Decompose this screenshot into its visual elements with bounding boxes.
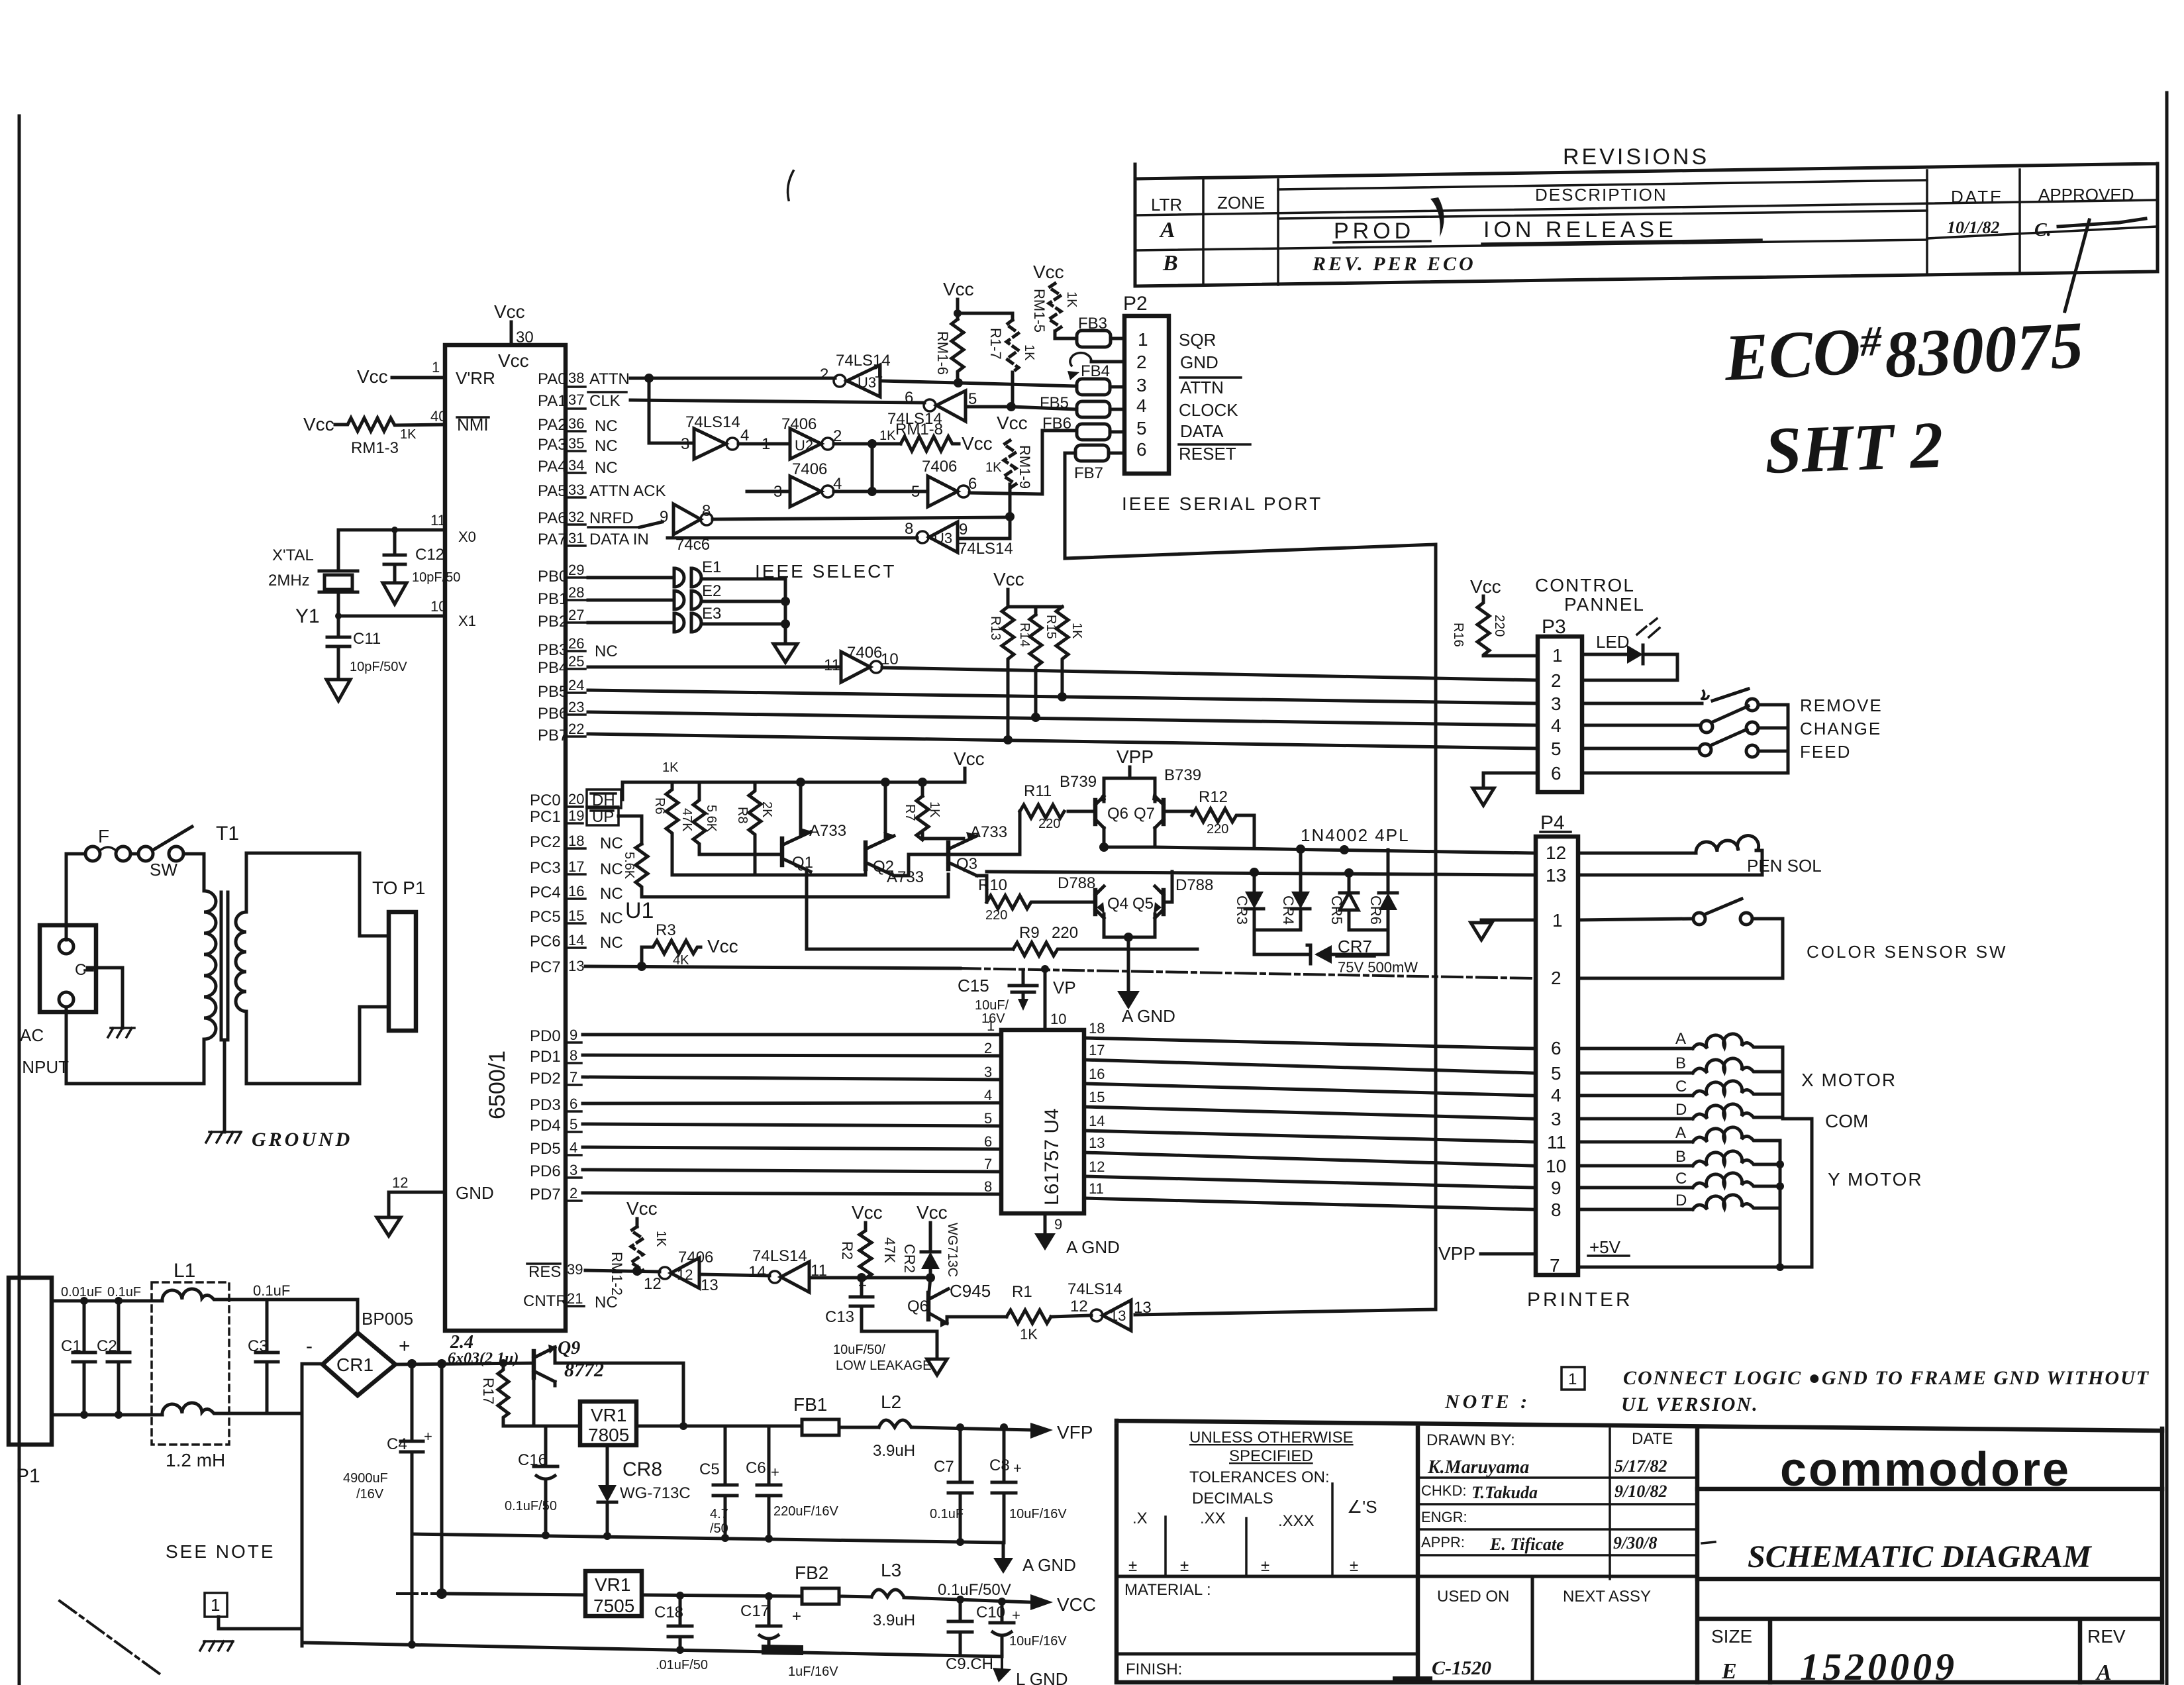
svg-text:3: 3 xyxy=(984,1064,992,1080)
svg-text:C.: C. xyxy=(2034,220,2052,240)
svg-text:11: 11 xyxy=(824,656,840,674)
svg-text:NC: NC xyxy=(595,437,618,455)
svg-text:PC7: PC7 xyxy=(530,958,561,976)
svg-text:P2: P2 xyxy=(1123,293,1148,315)
svg-text:1: 1 xyxy=(1568,1370,1577,1388)
svg-text:DECIMALS: DECIMALS xyxy=(1192,1490,1273,1507)
svg-text:PANNEL: PANNEL xyxy=(1564,594,1645,615)
svg-text:CR2: CR2 xyxy=(901,1244,918,1273)
svg-text:PA3: PA3 xyxy=(538,436,567,454)
svg-text:47K: 47K xyxy=(881,1237,898,1263)
svg-text:commodore: commodore xyxy=(1780,1443,2071,1496)
svg-text:220: 220 xyxy=(1207,822,1228,837)
svg-text:Q4: Q4 xyxy=(1107,895,1128,913)
svg-text:Vcc: Vcc xyxy=(1470,576,1501,597)
svg-text:7505: 7505 xyxy=(593,1596,634,1616)
svg-text:R3: R3 xyxy=(656,921,676,939)
svg-text:TO P1: TO P1 xyxy=(372,878,425,898)
svg-text:27: 27 xyxy=(568,607,584,623)
approved slash mark xyxy=(2058,219,2146,311)
svg-text:2: 2 xyxy=(1551,968,1562,988)
svg-text:17: 17 xyxy=(1089,1042,1105,1058)
svg-text:36: 36 xyxy=(568,415,584,432)
svg-text:R1-7: R1-7 xyxy=(987,328,1004,360)
svg-text:PD0: PD0 xyxy=(530,1027,561,1045)
svg-text:1K: 1K xyxy=(879,429,896,443)
svg-text:C5: C5 xyxy=(699,1460,720,1478)
svg-text:1520009: 1520009 xyxy=(1800,1645,1958,1685)
svg-text:DATE: DATE xyxy=(1632,1430,1673,1448)
svg-text:PB6: PB6 xyxy=(538,705,568,723)
svg-text:RM1-9: RM1-9 xyxy=(1017,445,1033,489)
svg-text:LOW LEAKAGE: LOW LEAKAGE xyxy=(836,1358,932,1373)
svg-text:A GND: A GND xyxy=(1066,1237,1120,1257)
wire node down to ATTN ACK chain xyxy=(871,444,874,491)
svg-text:3: 3 xyxy=(1551,1109,1562,1129)
svg-text:Q5: Q5 xyxy=(1132,895,1154,913)
svg-text:VFP: VFP xyxy=(1057,1422,1093,1443)
svg-text:13: 13 xyxy=(1110,1307,1126,1324)
svg-text:220: 220 xyxy=(1038,817,1060,831)
wire PB7 to P3 pin5 xyxy=(588,734,1538,748)
voltage regulator VR2 7505 xyxy=(585,1571,642,1616)
svg-text:PRINTER: PRINTER xyxy=(1527,1289,1633,1311)
wire ATTN gate to FB4 xyxy=(880,381,1077,386)
svg-text:T1: T1 xyxy=(216,823,239,844)
commodore logo box xyxy=(1697,1487,2162,1492)
wire P3 pin6 to ground xyxy=(1483,773,1538,788)
connector P1 xyxy=(9,1278,52,1445)
svg-text:35: 35 xyxy=(568,435,584,452)
svg-text:8: 8 xyxy=(570,1047,577,1064)
svg-text:PA2: PA2 xyxy=(538,416,567,434)
svg-text:10: 10 xyxy=(1050,1011,1066,1027)
page right border xyxy=(2165,93,2169,1685)
svg-text:74LS14: 74LS14 xyxy=(1067,1280,1122,1298)
svg-text:.X: .X xyxy=(1132,1509,1148,1527)
REVISIONS table outer frame xyxy=(1135,164,2158,286)
svg-text:14: 14 xyxy=(748,1263,766,1281)
svg-text:U3: U3 xyxy=(934,530,952,546)
svg-text:L61757 U4: L61757 U4 xyxy=(1041,1108,1063,1205)
svg-text:SW: SW xyxy=(150,860,177,880)
wire PD7 to U4 pin8 xyxy=(583,1193,1001,1194)
transformer T1 core xyxy=(221,892,228,1132)
svg-text:7406: 7406 xyxy=(678,1249,713,1266)
svg-text:5: 5 xyxy=(1136,418,1147,438)
svg-text:10uF/50/: 10uF/50/ xyxy=(833,1343,885,1357)
REVISIONS column verticals xyxy=(1203,170,2020,285)
wire bridge bottom to gnd rail xyxy=(301,1364,304,1646)
svg-text:Vcc: Vcc xyxy=(498,350,529,371)
svg-text:±: ± xyxy=(1350,1557,1358,1575)
wire 7406 out to RM1-8 node xyxy=(834,442,901,446)
svg-text:X1: X1 xyxy=(458,613,476,629)
svg-text:T.Takuda: T.Takuda xyxy=(1471,1483,1538,1502)
wire Q3 emitter to R10 xyxy=(977,876,987,902)
svg-text:4: 4 xyxy=(984,1087,992,1103)
svg-text:CR1: CR1 xyxy=(336,1354,373,1375)
svg-text:R9: R9 xyxy=(1019,924,1040,942)
transformer T1 secondary xyxy=(236,912,246,1011)
dash after appr xyxy=(1702,1542,1715,1543)
svg-text:A: A xyxy=(1675,1030,1686,1048)
wire PB5 to P3 pin3 xyxy=(588,690,1538,703)
svg-text:CNTR: CNTR xyxy=(523,1292,568,1310)
svg-text:NC: NC xyxy=(600,885,623,903)
wire PD5 to U4 pin6 xyxy=(583,1147,1001,1149)
svg-text:PB3: PB3 xyxy=(538,641,568,659)
svg-text:12: 12 xyxy=(677,1266,693,1283)
svg-text:220: 220 xyxy=(985,908,1007,923)
svg-text:8: 8 xyxy=(905,520,913,538)
svg-text:6: 6 xyxy=(905,389,913,407)
U1 6500/1 CPU box xyxy=(445,345,566,1331)
tolerance tick verticals xyxy=(1166,1484,1332,1574)
svg-text:PD3: PD3 xyxy=(530,1096,561,1114)
capacitor C12 xyxy=(384,530,405,583)
size/number/rev row xyxy=(1697,1429,2162,1682)
svg-text:C17: C17 xyxy=(740,1602,769,1620)
ground arrow below C11 xyxy=(326,680,350,701)
svg-text:CONNECT LOGIC ●GND TO FRAME GN: CONNECT LOGIC ●GND TO FRAME GND WITHOUT xyxy=(1623,1367,2150,1389)
svg-text:220: 220 xyxy=(1492,615,1507,637)
svg-text:C6: C6 xyxy=(746,1459,766,1477)
svg-text:PA1: PA1 xyxy=(538,392,567,410)
svg-text:1K: 1K xyxy=(1064,291,1079,308)
switch FEED xyxy=(1699,744,1711,756)
node PA0 junction xyxy=(644,374,654,383)
svg-text:Vcc: Vcc xyxy=(1033,262,1064,282)
svg-text:2: 2 xyxy=(1551,670,1562,691)
ground arrow for pin 12 xyxy=(377,1217,401,1236)
svg-text:24: 24 xyxy=(568,677,584,693)
svg-text:1: 1 xyxy=(1552,910,1563,931)
svg-text:IEEE SERIAL PORT: IEEE SERIAL PORT xyxy=(1122,493,1322,514)
wire P4 pin1 to ground xyxy=(1481,920,1536,923)
resistor R17 xyxy=(498,1363,509,1426)
svg-text:L GND: L GND xyxy=(1016,1669,1068,1685)
svg-text:4: 4 xyxy=(1551,1085,1562,1105)
svg-text:PA4: PA4 xyxy=(538,458,567,476)
svg-text:FB6: FB6 xyxy=(1042,415,1071,433)
wire secondary to TO P1 plug bottom xyxy=(246,1007,389,1084)
svg-text:PB0: PB0 xyxy=(538,568,568,586)
svg-text:A GND: A GND xyxy=(1022,1555,1076,1575)
svg-text:-: - xyxy=(306,1335,313,1357)
svg-text:1K: 1K xyxy=(662,760,679,775)
wire Q1 collector R9 line xyxy=(807,948,1013,951)
svg-text:11: 11 xyxy=(1089,1180,1104,1197)
svg-text:DESCRIPTION: DESCRIPTION xyxy=(1535,185,1667,205)
svg-text:1: 1 xyxy=(211,1595,220,1615)
stray pen mark top center xyxy=(788,171,793,200)
wire mid bar to P4 pin12 PEN SOL line xyxy=(1155,847,1532,853)
svg-text:NC: NC xyxy=(600,909,623,927)
wire PB4 to 7406 xyxy=(588,666,841,669)
wire to 74LS14 xyxy=(699,1274,769,1276)
svg-text:R14: R14 xyxy=(1017,623,1032,647)
svg-text:ATTN: ATTN xyxy=(589,370,630,388)
svg-text:PEN SOL: PEN SOL xyxy=(1747,856,1822,876)
ground arrow IEEE select xyxy=(773,644,797,662)
VCC output arrow xyxy=(1030,1594,1053,1610)
svg-text:DATA IN: DATA IN xyxy=(589,531,649,548)
wire VR1 input line xyxy=(503,1378,580,1426)
wire PC7 dash-dot to P4 pin2 xyxy=(960,968,1532,978)
svg-text:22: 22 xyxy=(568,721,584,737)
svg-text:C-1520: C-1520 xyxy=(1432,1657,1491,1679)
svg-text:Vcc: Vcc xyxy=(943,279,974,299)
svg-text:NEXT ASSY: NEXT ASSY xyxy=(1563,1588,1651,1606)
svg-text:LED: LED xyxy=(1596,632,1630,652)
switch CHANGE xyxy=(1701,721,1712,733)
svg-text:C: C xyxy=(1675,1078,1687,1096)
svg-text:75V 500mW: 75V 500mW xyxy=(1338,959,1418,976)
svg-text:E1: E1 xyxy=(702,558,721,576)
wire P3 pin3 to REMOVE switch xyxy=(1582,702,1702,705)
jumper E1 xyxy=(674,568,701,587)
svg-text:CLK: CLK xyxy=(589,392,620,410)
svg-text:RM1-6: RM1-6 xyxy=(934,331,951,375)
svg-text:R8: R8 xyxy=(735,807,750,824)
wire PA1 CLK line xyxy=(630,400,924,403)
svg-text:5.6K: 5.6K xyxy=(704,805,719,833)
svg-text:DATA: DATA xyxy=(1180,421,1224,441)
svg-text:Q1: Q1 xyxy=(792,854,813,872)
wire Q1 collector down xyxy=(805,870,809,949)
svg-text:9/10/82: 9/10/82 xyxy=(1614,1482,1667,1501)
resistor R14 xyxy=(1030,615,1042,717)
wire bottom line to bridge left xyxy=(302,1364,323,1413)
ferrite bead FB7 xyxy=(1075,445,1109,461)
wire P1 top line xyxy=(52,1300,152,1303)
svg-text:PA7: PA7 xyxy=(538,531,567,548)
svg-text:NOTE :: NOTE : xyxy=(1444,1391,1530,1413)
svg-text:GROUND: GROUND xyxy=(252,1129,352,1150)
U4 L61757 driver box xyxy=(1001,1030,1084,1213)
diode CR6 xyxy=(1387,850,1390,893)
diode CR4 xyxy=(1299,849,1303,892)
svg-text:B: B xyxy=(1675,1148,1686,1166)
U1 GND pin 12 xyxy=(389,1192,445,1217)
svg-text:C945: C945 xyxy=(950,1281,991,1301)
svg-text:1: 1 xyxy=(987,1017,995,1034)
heavy ink mark on rail xyxy=(762,1645,803,1655)
svg-text:PC5: PC5 xyxy=(530,908,561,926)
svg-text:B: B xyxy=(1162,251,1178,276)
svg-text:VP: VP xyxy=(1053,978,1076,997)
switch REMOVE xyxy=(1702,691,1709,699)
svg-text:9: 9 xyxy=(1551,1178,1562,1198)
wire 7406 out to FB6 corner xyxy=(969,431,1077,494)
svg-text:PB4: PB4 xyxy=(538,659,568,677)
wire Q2 emitter to Q3 base xyxy=(894,854,948,876)
wire PD4 to U4 pin5 xyxy=(583,1124,1001,1126)
svg-text:15: 15 xyxy=(568,907,584,924)
svg-text:E: E xyxy=(1721,1659,1737,1684)
svg-text:4: 4 xyxy=(570,1139,577,1156)
svg-text:8: 8 xyxy=(984,1178,992,1195)
page left border xyxy=(18,116,21,1685)
svg-text:COM: COM xyxy=(1825,1111,1868,1131)
LED diode on P3 pin1 xyxy=(1582,653,1627,656)
svg-text:Y MOTOR: Y MOTOR xyxy=(1828,1169,1923,1190)
svg-text:+: + xyxy=(771,1464,779,1480)
wire P3 pin4 to CHANGE switch xyxy=(1582,724,1701,727)
svg-text:E. Tificate: E. Tificate xyxy=(1489,1535,1564,1554)
svg-text:PC1: PC1 xyxy=(530,808,561,826)
svg-text:4.7: 4.7 xyxy=(710,1507,728,1521)
wire PD2 to U4 pin3 xyxy=(583,1077,1001,1080)
svg-text:19: 19 xyxy=(568,807,584,824)
pen solenoid coil xyxy=(1578,852,1696,855)
ink blot on description xyxy=(1430,197,1444,237)
A GND arrow on rail xyxy=(1002,1543,1005,1558)
wire PD0 to U4 pin1 xyxy=(583,1033,1001,1037)
svg-text:RM1-3: RM1-3 xyxy=(351,439,399,457)
svg-text:NRFD: NRFD xyxy=(589,509,634,527)
jumper E3 xyxy=(674,613,701,632)
svg-text:C9.CH: C9.CH xyxy=(946,1655,993,1673)
svg-text:+: + xyxy=(792,1608,801,1625)
svg-text:3: 3 xyxy=(1136,375,1147,395)
wire PB0 to E1 xyxy=(588,576,673,580)
svg-text:AC: AC xyxy=(20,1025,44,1045)
svg-text:10/1/82: 10/1/82 xyxy=(1947,218,1999,237)
svg-text:E3: E3 xyxy=(702,605,721,623)
svg-text:Q6: Q6 xyxy=(907,1298,928,1315)
svg-text:25: 25 xyxy=(568,653,584,670)
svg-text:PD4: PD4 xyxy=(530,1117,561,1135)
switch return bus to pin6 xyxy=(1582,705,1788,773)
svg-text:Vcc: Vcc xyxy=(997,413,1028,433)
U4 pin9 bottom A GND xyxy=(1044,1213,1047,1233)
small chassis ground xyxy=(108,1028,134,1037)
wire R1 to 74LS14 xyxy=(1051,1315,1091,1317)
svg-text:PB7: PB7 xyxy=(538,727,568,744)
svg-text:10pF/50V: 10pF/50V xyxy=(350,660,407,674)
svg-text:R2: R2 xyxy=(839,1241,856,1260)
svg-text:5: 5 xyxy=(570,1116,577,1133)
transformer T1 primary xyxy=(204,891,216,1084)
svg-text:PC6: PC6 xyxy=(530,933,561,950)
svg-text:APPROVED: APPROVED xyxy=(2038,185,2134,205)
svg-text:ATTN: ATTN xyxy=(1180,378,1224,397)
svg-text:SIZE: SIZE xyxy=(1711,1626,1752,1647)
svg-text:10uF/16V: 10uF/16V xyxy=(1009,1634,1067,1649)
svg-text:D788: D788 xyxy=(1058,874,1095,892)
wire C pin to small ground xyxy=(87,968,123,1028)
svg-text:CR7: CR7 xyxy=(1338,937,1372,956)
boxed 1 note ref xyxy=(205,1593,227,1617)
svg-text:APPR:: APPR: xyxy=(1421,1534,1465,1551)
wire PB2 to E3 xyxy=(588,621,673,625)
svg-text:SQR: SQR xyxy=(1179,330,1216,350)
svg-text:FINISH:: FINISH: xyxy=(1126,1660,1182,1678)
svg-text:5: 5 xyxy=(1551,1063,1562,1084)
svg-text:74LS14: 74LS14 xyxy=(752,1247,807,1265)
svg-text:PD5: PD5 xyxy=(530,1140,561,1158)
svg-text:L2: L2 xyxy=(881,1392,901,1412)
svg-text:A733: A733 xyxy=(809,822,846,840)
svg-text:14: 14 xyxy=(568,932,584,948)
svg-text:NC: NC xyxy=(595,459,618,477)
svg-text:0.1uF: 0.1uF xyxy=(930,1507,964,1521)
svg-text:FB2: FB2 xyxy=(795,1562,828,1583)
svg-text:220uF/16V: 220uF/16V xyxy=(773,1504,839,1519)
AC outlet xyxy=(40,925,96,1012)
wire bridge + output rail xyxy=(395,1363,534,1364)
svg-text:UNLESS OTHERWISE: UNLESS OTHERWISE xyxy=(1189,1429,1354,1447)
svg-text:U2: U2 xyxy=(795,437,813,454)
svg-text:2: 2 xyxy=(570,1185,577,1201)
wire E2 to gnd bus xyxy=(702,600,785,603)
svg-text:13: 13 xyxy=(1089,1135,1105,1151)
svg-text:1K: 1K xyxy=(1020,1326,1038,1343)
svg-text:21: 21 xyxy=(567,1290,583,1307)
svg-text:NC: NC xyxy=(595,417,618,435)
svg-text:V'RR: V'RR xyxy=(456,368,495,388)
wire PA0 ATTN line xyxy=(630,377,835,380)
svg-text:3: 3 xyxy=(570,1162,577,1178)
svg-text:220: 220 xyxy=(1052,924,1078,942)
FINISH row xyxy=(1118,1653,1418,1656)
svg-text:18: 18 xyxy=(568,833,584,849)
switch SW xyxy=(138,846,153,861)
wire E3 to gnd bus xyxy=(702,623,785,626)
X motor common bus xyxy=(1783,1047,1812,1267)
svg-text:ENGR:: ENGR: xyxy=(1421,1509,1467,1525)
svg-text:NC: NC xyxy=(595,1294,618,1311)
svg-text:17: 17 xyxy=(568,858,584,875)
svg-text:X0: X0 xyxy=(458,529,476,545)
svg-text:1: 1 xyxy=(1138,329,1148,350)
svg-text:L1: L1 xyxy=(174,1260,195,1282)
svg-text:8: 8 xyxy=(702,502,711,520)
svg-text:PB1: PB1 xyxy=(538,590,568,608)
svg-text:NC: NC xyxy=(600,860,623,878)
svg-text:6: 6 xyxy=(1551,763,1562,784)
wire long node line PC0 net xyxy=(672,874,866,877)
svg-text:26: 26 xyxy=(568,635,584,652)
svg-text:C7: C7 xyxy=(934,1458,954,1476)
svg-text:CR4: CR4 xyxy=(1280,895,1297,925)
A GND arrow under bridge xyxy=(1127,937,1130,991)
resistor R7 xyxy=(693,782,728,854)
svg-text:PA0: PA0 xyxy=(538,370,567,388)
svg-text:PD1: PD1 xyxy=(530,1048,561,1066)
svg-text:Vcc: Vcc xyxy=(954,748,985,769)
svg-text:PC0: PC0 xyxy=(530,791,561,809)
wire VR2 output line xyxy=(642,1595,802,1596)
svg-text:13: 13 xyxy=(1546,865,1566,886)
svg-text:U1: U1 xyxy=(625,898,654,923)
L1 top coil xyxy=(152,1289,267,1301)
svg-text:39: 39 xyxy=(567,1261,583,1278)
svg-text:Q6: Q6 xyxy=(1107,805,1128,823)
svg-text:.XXX: .XXX xyxy=(1278,1512,1315,1530)
svg-text:7406: 7406 xyxy=(781,415,817,433)
svg-text:Q7: Q7 xyxy=(1134,805,1155,823)
svg-text:Vcc: Vcc xyxy=(626,1198,658,1219)
svg-text:WG713C: WG713C xyxy=(945,1223,960,1277)
wire crystal to X1 pin 10 xyxy=(338,592,445,616)
svg-text:R17: R17 xyxy=(480,1378,497,1404)
zener CR7 xyxy=(1254,953,1388,956)
svg-text:CONTROL: CONTROL xyxy=(1535,575,1635,595)
svg-text:DRAWN BY:: DRAWN BY: xyxy=(1426,1431,1515,1449)
